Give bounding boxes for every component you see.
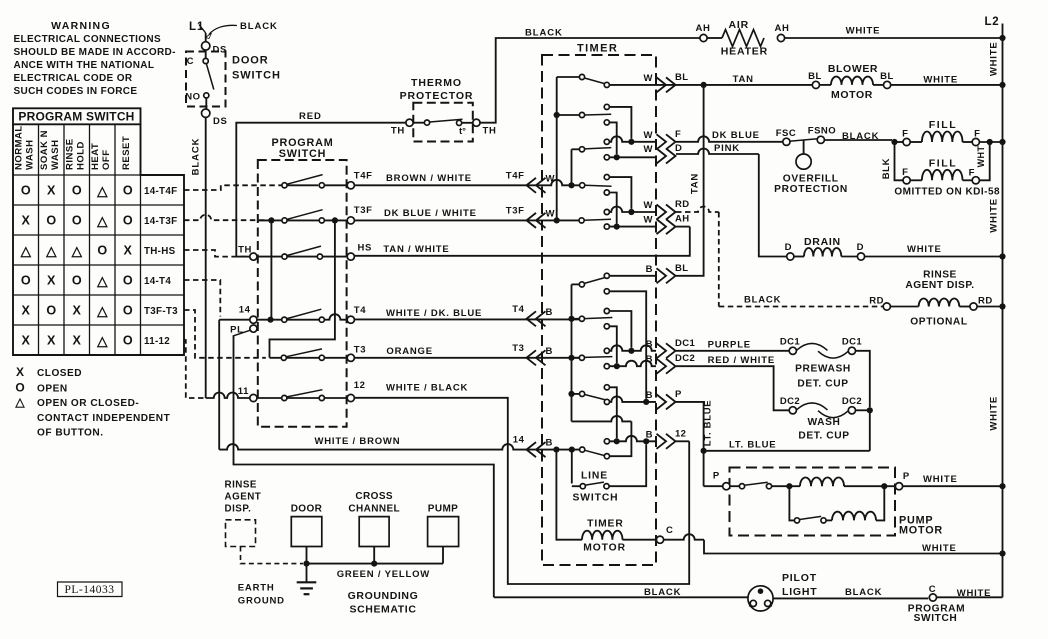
- svg-text:C: C: [929, 584, 936, 595]
- svg-text:△: △: [14, 395, 25, 409]
- svg-text:X: X: [124, 244, 133, 258]
- svg-text:△: △: [45, 243, 57, 258]
- svg-text:PURPLE: PURPLE: [708, 339, 751, 350]
- svg-text:DOOR: DOOR: [291, 504, 323, 515]
- svg-text:B: B: [646, 429, 653, 440]
- svg-text:PL: PL: [230, 324, 243, 335]
- svg-text:SUCH CODES IN FORCE: SUCH CODES IN FORCE: [14, 86, 138, 97]
- svg-text:X: X: [47, 184, 56, 198]
- svg-text:△: △: [96, 183, 108, 198]
- svg-text:MOTOR: MOTOR: [831, 89, 873, 101]
- svg-text:T3: T3: [354, 344, 366, 355]
- svg-text:△: △: [96, 303, 108, 318]
- svg-text:O: O: [46, 214, 56, 228]
- svg-text:WHITE: WHITE: [907, 244, 942, 255]
- svg-text:C: C: [666, 525, 673, 536]
- svg-text:W: W: [546, 208, 555, 219]
- svg-text:WARNING: WARNING: [51, 20, 111, 32]
- svg-text:WHITE / DK. BLUE: WHITE / DK. BLUE: [386, 308, 482, 319]
- svg-text:D: D: [785, 242, 792, 253]
- svg-text:NO: NO: [185, 92, 200, 103]
- svg-text:SHOULD BE MADE IN ACCORD-: SHOULD BE MADE IN ACCORD-: [14, 47, 176, 58]
- svg-text:DC2: DC2: [780, 396, 800, 407]
- svg-text:AH: AH: [675, 214, 690, 225]
- svg-text:GROUND: GROUND: [238, 596, 285, 607]
- svg-text:T4: T4: [354, 305, 366, 316]
- svg-text:X: X: [16, 365, 24, 379]
- svg-text:AIR: AIR: [729, 19, 749, 31]
- svg-text:PUMP: PUMP: [428, 504, 459, 515]
- svg-text:THERMO: THERMO: [411, 77, 462, 89]
- svg-text:P: P: [713, 471, 720, 482]
- svg-text:B: B: [646, 339, 653, 350]
- svg-text:T4: T4: [512, 304, 524, 315]
- svg-text:RED: RED: [299, 111, 322, 122]
- svg-text:TAN / WHITE: TAN / WHITE: [383, 244, 449, 255]
- svg-text:14-T4F: 14-T4F: [144, 186, 177, 197]
- svg-text:O: O: [21, 184, 31, 198]
- svg-text:TAN: TAN: [733, 74, 754, 85]
- svg-text:TH: TH: [483, 126, 497, 137]
- svg-text:14: 14: [239, 305, 251, 316]
- svg-text:BLACK: BLACK: [842, 131, 879, 142]
- svg-text:BL: BL: [880, 71, 894, 82]
- svg-text:T3F: T3F: [506, 205, 525, 216]
- svg-text:T3F-T3: T3F-T3: [144, 306, 178, 317]
- svg-text:AGENT: AGENT: [225, 492, 262, 503]
- svg-text:PREWASH: PREWASH: [795, 364, 851, 375]
- svg-text:ORANGE: ORANGE: [386, 346, 433, 357]
- svg-text:RD: RD: [978, 295, 993, 306]
- svg-text:T4F: T4F: [506, 170, 525, 181]
- svg-text:P: P: [675, 389, 682, 400]
- svg-text:CLOSED: CLOSED: [37, 368, 82, 379]
- svg-text:O: O: [72, 184, 82, 198]
- svg-text:RD: RD: [869, 295, 884, 306]
- svg-text:WHITE: WHITE: [846, 25, 881, 36]
- svg-text:△: △: [20, 243, 32, 258]
- svg-text:BLOWER: BLOWER: [828, 63, 878, 75]
- svg-text:AGENT DISP.: AGENT DISP.: [905, 280, 974, 291]
- svg-text:AH: AH: [696, 23, 711, 34]
- svg-text:O: O: [123, 214, 133, 228]
- svg-text:SOAK N: SOAK N: [39, 130, 50, 170]
- svg-text:B: B: [646, 354, 653, 365]
- svg-text:BLACK: BLACK: [525, 28, 563, 39]
- svg-text:HS: HS: [358, 243, 372, 254]
- svg-text:DET. CUP: DET. CUP: [797, 379, 848, 390]
- svg-text:BLACK: BLACK: [845, 587, 882, 598]
- svg-text:△: △: [96, 213, 108, 228]
- svg-text:TIMER: TIMER: [577, 43, 618, 55]
- svg-text:BLACK: BLACK: [744, 295, 781, 306]
- svg-text:FILL: FILL: [929, 157, 958, 169]
- svg-text:PL-14033: PL-14033: [65, 584, 115, 596]
- svg-text:B: B: [646, 264, 653, 275]
- svg-text:OF BUTTON.: OF BUTTON.: [37, 428, 104, 439]
- svg-text:RESET: RESET: [121, 136, 132, 170]
- svg-text:EARTH: EARTH: [238, 583, 275, 594]
- svg-text:t°: t°: [459, 126, 466, 137]
- svg-text:DISP.: DISP.: [225, 504, 252, 515]
- svg-text:D: D: [675, 143, 682, 154]
- svg-text:ANCE WITH THE NATIONAL: ANCE WITH THE NATIONAL: [14, 60, 155, 71]
- svg-text:WHT: WHT: [976, 146, 986, 168]
- svg-text:FILL: FILL: [929, 119, 958, 131]
- svg-text:WHITE: WHITE: [923, 75, 958, 86]
- svg-text:W: W: [644, 144, 653, 155]
- svg-text:BL: BL: [675, 72, 688, 83]
- svg-text:X: X: [22, 334, 31, 348]
- svg-text:B: B: [546, 346, 553, 357]
- svg-text:TH-HS: TH-HS: [144, 246, 176, 257]
- svg-text:WHITE: WHITE: [957, 588, 992, 599]
- svg-text:DET. CUP: DET. CUP: [798, 430, 849, 441]
- svg-text:11-12: 11-12: [144, 336, 170, 347]
- svg-text:T4F: T4F: [354, 170, 373, 181]
- svg-text:DK BLUE / WHITE: DK BLUE / WHITE: [384, 208, 477, 219]
- svg-text:PINK: PINK: [714, 143, 740, 154]
- svg-text:DC2: DC2: [842, 396, 862, 407]
- svg-text:RINSE: RINSE: [64, 138, 75, 170]
- svg-text:O: O: [15, 381, 24, 395]
- svg-text:WHITE: WHITE: [988, 41, 999, 76]
- svg-text:BLK: BLK: [881, 158, 892, 179]
- svg-text:RD: RD: [675, 199, 690, 210]
- svg-text:DS: DS: [213, 45, 228, 56]
- svg-text:TAN: TAN: [690, 173, 701, 194]
- svg-text:RINSE: RINSE: [225, 480, 257, 491]
- svg-text:FSNO: FSNO: [808, 126, 836, 137]
- svg-text:LIGHT: LIGHT: [782, 586, 818, 598]
- svg-text:X: X: [22, 304, 31, 318]
- svg-text:X: X: [22, 214, 31, 228]
- svg-text:B: B: [546, 307, 553, 318]
- svg-text:SWITCH: SWITCH: [279, 148, 326, 160]
- svg-text:DC1: DC1: [780, 337, 801, 348]
- svg-text:X: X: [73, 304, 82, 318]
- svg-text:T3: T3: [512, 343, 524, 354]
- svg-text:O: O: [72, 274, 82, 288]
- svg-text:BLACK: BLACK: [644, 587, 681, 598]
- svg-text:WASH: WASH: [808, 417, 841, 428]
- svg-text:L2: L2: [984, 16, 999, 28]
- svg-text:O: O: [123, 304, 133, 318]
- svg-text:P: P: [903, 471, 910, 482]
- svg-text:O: O: [21, 274, 31, 288]
- svg-text:OPTIONAL: OPTIONAL: [910, 317, 967, 328]
- svg-text:DOOR: DOOR: [232, 55, 269, 67]
- svg-text:GREEN / YELLOW: GREEN / YELLOW: [337, 569, 430, 580]
- svg-text:TH: TH: [238, 244, 252, 255]
- svg-text:W: W: [644, 200, 653, 211]
- svg-text:O: O: [97, 244, 107, 258]
- svg-text:O: O: [123, 334, 133, 348]
- svg-text:W: W: [644, 215, 653, 226]
- svg-text:L1: L1: [189, 21, 204, 33]
- svg-text:WHITE: WHITE: [988, 198, 999, 233]
- svg-text:X: X: [47, 334, 56, 348]
- svg-text:WASH: WASH: [24, 140, 35, 171]
- svg-text:GROUNDING: GROUNDING: [348, 590, 419, 602]
- svg-text:W: W: [546, 173, 555, 184]
- svg-text:TH: TH: [391, 126, 405, 137]
- svg-text:O: O: [72, 214, 82, 228]
- svg-text:△: △: [96, 333, 108, 348]
- svg-text:WHITE: WHITE: [988, 396, 999, 431]
- svg-text:T3F: T3F: [354, 205, 373, 216]
- svg-text:NORMAL: NORMAL: [13, 125, 24, 170]
- svg-text:WHITE / BLACK: WHITE / BLACK: [386, 383, 468, 394]
- svg-text:O: O: [123, 274, 133, 288]
- svg-text:F: F: [974, 129, 980, 140]
- svg-text:OVERFILL: OVERFILL: [783, 173, 839, 184]
- svg-text:O: O: [123, 184, 133, 198]
- svg-text:14-T3F: 14-T3F: [144, 216, 177, 227]
- svg-text:F: F: [902, 129, 908, 140]
- svg-text:BL: BL: [675, 263, 688, 274]
- svg-text:BL: BL: [808, 71, 822, 82]
- svg-text:SWITCH: SWITCH: [232, 70, 281, 82]
- svg-text:F: F: [675, 129, 681, 140]
- svg-text:W: W: [644, 130, 653, 141]
- svg-text:X: X: [47, 274, 56, 288]
- svg-text:11: 11: [238, 386, 249, 397]
- svg-text:HEATER: HEATER: [721, 46, 768, 58]
- svg-text:PROTECTOR: PROTECTOR: [400, 90, 474, 102]
- svg-text:RINSE: RINSE: [923, 269, 957, 280]
- svg-text:HOLD: HOLD: [75, 141, 86, 170]
- svg-text:△: △: [96, 273, 108, 288]
- svg-text:LINE: LINE: [581, 471, 608, 482]
- svg-text:O: O: [46, 304, 56, 318]
- svg-text:RED / WHITE: RED / WHITE: [708, 355, 775, 366]
- svg-text:14: 14: [513, 435, 525, 446]
- svg-text:F: F: [902, 167, 908, 178]
- svg-text:F: F: [969, 167, 975, 178]
- svg-text:ELECTRICAL CODE OR: ELECTRICAL CODE OR: [14, 73, 133, 84]
- svg-text:DC1: DC1: [675, 338, 696, 349]
- svg-text:WHITE: WHITE: [923, 474, 958, 485]
- svg-text:12: 12: [675, 428, 686, 439]
- svg-text:W: W: [644, 73, 653, 84]
- svg-text:CHANNEL: CHANNEL: [348, 504, 400, 515]
- svg-text:12: 12: [354, 380, 366, 391]
- svg-text:C: C: [187, 56, 194, 67]
- svg-text:B: B: [646, 390, 653, 401]
- svg-text:WHITE / BROWN: WHITE / BROWN: [315, 436, 401, 447]
- svg-text:LT. BLUE: LT. BLUE: [703, 400, 714, 447]
- svg-text:SWITCH: SWITCH: [914, 613, 958, 624]
- svg-text:MOTOR: MOTOR: [899, 525, 943, 537]
- svg-text:WASH: WASH: [50, 140, 61, 171]
- svg-text:BLACK: BLACK: [240, 21, 278, 32]
- svg-text:X: X: [73, 334, 82, 348]
- svg-text:DK BLUE: DK BLUE: [712, 130, 760, 141]
- svg-text:14-T4: 14-T4: [144, 276, 171, 287]
- svg-text:LT. BLUE: LT. BLUE: [729, 440, 776, 451]
- svg-text:HEAT: HEAT: [90, 143, 101, 170]
- svg-text:FSC: FSC: [776, 128, 797, 139]
- svg-text:TIMER: TIMER: [587, 518, 624, 529]
- svg-text:OPEN: OPEN: [37, 384, 68, 395]
- svg-text:D: D: [857, 242, 864, 253]
- svg-text:△: △: [71, 243, 83, 258]
- svg-text:SCHEMATIC: SCHEMATIC: [349, 603, 416, 615]
- svg-text:MOTOR: MOTOR: [583, 543, 626, 554]
- svg-text:SWITCH: SWITCH: [572, 493, 618, 504]
- svg-text:B: B: [546, 438, 553, 449]
- svg-text:PROTECTION: PROTECTION: [774, 184, 848, 195]
- svg-text:CONTACT INDEPENDENT: CONTACT INDEPENDENT: [37, 413, 171, 424]
- svg-text:WHITE: WHITE: [922, 543, 957, 554]
- svg-text:BLACK: BLACK: [191, 138, 202, 176]
- svg-text:PROGRAM SWITCH: PROGRAM SWITCH: [18, 110, 134, 124]
- svg-text:DC2: DC2: [675, 353, 695, 364]
- svg-text:DS: DS: [213, 116, 228, 127]
- svg-text:OMITTED ON KDI-58: OMITTED ON KDI-58: [894, 186, 1000, 197]
- svg-text:DRAIN: DRAIN: [804, 236, 841, 248]
- svg-text:BROWN / WHITE: BROWN / WHITE: [386, 173, 472, 184]
- svg-text:DC1: DC1: [842, 337, 863, 348]
- svg-text:PILOT: PILOT: [782, 572, 817, 584]
- svg-text:OPEN OR CLOSED-: OPEN OR CLOSED-: [37, 398, 139, 409]
- svg-text:CROSS: CROSS: [355, 491, 393, 502]
- svg-text:OFF: OFF: [101, 150, 112, 171]
- svg-text:AH: AH: [775, 23, 790, 34]
- svg-text:ELECTRICAL CONNECTIONS: ELECTRICAL CONNECTIONS: [14, 34, 162, 45]
